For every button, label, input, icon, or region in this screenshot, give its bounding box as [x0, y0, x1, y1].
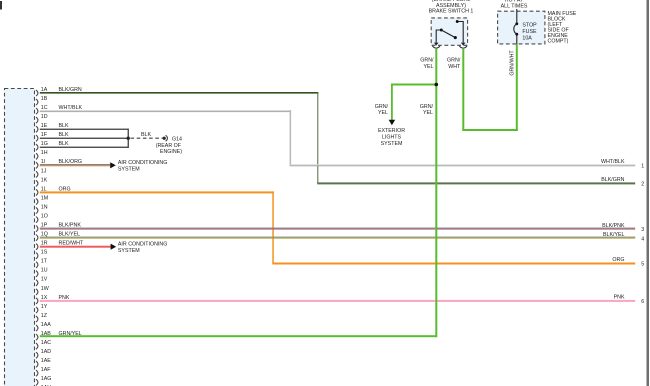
label BLK/PNK at right exit — [602, 223, 625, 229]
label BLK/GRN at pin 1A — [59, 87, 82, 93]
svg-text:AIR CONDITIONING: AIR CONDITIONING — [118, 242, 167, 248]
page frame right border — [647, 0, 650, 386]
svg-text:1M: 1M — [41, 195, 48, 201]
svg-text:1AD: 1AD — [41, 349, 51, 355]
svg-text:1F: 1F — [41, 132, 48, 138]
svg-text:BLK: BLK — [59, 132, 69, 138]
svg-text:1J: 1J — [41, 168, 47, 174]
label BLK/PNK at pin 1P — [59, 223, 82, 229]
svg-text:1S: 1S — [41, 250, 48, 256]
label BLK at pin 1E — [59, 123, 69, 129]
label HOT AT ALL TIMES — [501, 0, 528, 10]
brake switch 1 contacts and blade — [436, 20, 463, 42]
svg-text:STOP: STOP — [522, 23, 537, 29]
label EXTERIOR LIGHTS SYSTEM — [378, 128, 405, 147]
svg-text:1N: 1N — [41, 204, 48, 210]
junction dot GRN/YEL node — [435, 83, 439, 87]
label GRN/WHT (vertical) — [510, 50, 516, 76]
svg-text:1O: 1O — [41, 214, 48, 220]
svg-text:G14: G14 — [172, 137, 182, 143]
stop fuse box (main fuse block) — [498, 11, 545, 44]
label BRAKE SWITCH 1 — [429, 9, 474, 15]
exit number 1 — [641, 163, 644, 169]
pin 1V — [36, 277, 48, 286]
pin 1X — [36, 295, 48, 304]
svg-text:1AE: 1AE — [41, 358, 51, 364]
pin 1L — [36, 186, 47, 195]
svg-text:1AF: 1AF — [41, 367, 51, 373]
pin 1W — [36, 286, 49, 295]
svg-text:SYSTEM: SYSTEM — [118, 167, 140, 173]
svg-text:GRN/: GRN/ — [420, 58, 434, 64]
pin 1G — [36, 141, 48, 150]
wire GRN/WHT from brake switch to stop fuse — [462, 44, 518, 131]
arrow to air conditioning system (1I) — [110, 162, 116, 168]
label BLK/YEL at pin 1Q — [59, 232, 81, 238]
exit number 5 — [641, 262, 644, 268]
pin 1S — [36, 250, 48, 259]
BLK bracket junction — [127, 129, 130, 148]
exit number 3 — [641, 227, 644, 233]
label BLK on ground lead — [141, 132, 151, 138]
svg-text:1Z: 1Z — [41, 313, 48, 319]
feed wire into stop fuse — [516, 9, 518, 24]
svg-text:1AC: 1AC — [41, 340, 51, 346]
svg-text:WHT: WHT — [448, 64, 461, 70]
ground G14 terminal symbol — [163, 135, 168, 141]
svg-text:BLK/ORG: BLK/ORG — [59, 159, 83, 165]
svg-text:BLK/PNK: BLK/PNK — [59, 223, 82, 229]
pin 1D — [36, 114, 48, 123]
svg-text:BLK/YEL: BLK/YEL — [59, 232, 81, 238]
svg-text:EXTERIOR: EXTERIOR — [378, 128, 405, 134]
label (BRAKE PEDAL ASSEMBLY) — [432, 0, 471, 9]
brake switch pin 1 connector symbol (left) — [432, 43, 440, 49]
pin 1AA — [36, 322, 51, 331]
arrow to exterior lights system — [389, 120, 396, 125]
label GRN/YEL below brake switch left pin — [420, 58, 434, 70]
label BLK/GRN at right exit — [601, 177, 624, 183]
pin 1O — [36, 214, 48, 223]
svg-text:1: 1 — [641, 163, 644, 169]
svg-text:6: 6 — [641, 299, 644, 305]
wire BLK/PNK from pin 1P to right edge (exit 3) — [40, 228, 635, 230]
brake switch pin 2 connector symbol (right) — [459, 43, 467, 49]
pin 1J — [36, 168, 47, 177]
svg-text:ENGINE): ENGINE) — [160, 149, 182, 155]
svg-text:WHT/BLK: WHT/BLK — [601, 159, 625, 165]
svg-text:GRN/: GRN/ — [447, 58, 461, 64]
wire ORG from pin 1L to right edge (exit 5) — [40, 191, 635, 264]
svg-text:1Y: 1Y — [41, 304, 48, 310]
svg-text:BLK/PNK: BLK/PNK — [602, 223, 625, 229]
wire BLK/ORG from pin 1I to A/C system — [40, 164, 110, 166]
svg-text:1AG: 1AG — [41, 376, 52, 382]
svg-text:PNK: PNK — [59, 295, 70, 301]
svg-text:ORG: ORG — [59, 186, 71, 192]
label GRN/YEL at main run — [420, 104, 434, 116]
label STOP FUSE 10A — [522, 23, 537, 42]
label WHT/BLK at pin 1C — [59, 105, 83, 111]
exit number 6 — [641, 299, 644, 305]
wire BLK/YEL from pin 1Q to right edge (exit 4) — [40, 237, 635, 239]
label WHT/BLK at right exit — [601, 159, 625, 165]
svg-text:COMPT): COMPT) — [548, 38, 569, 44]
label ORG at pin 1L — [59, 186, 71, 192]
wire BLK/GRN from pin 1A to right edge (exit 2) — [40, 92, 635, 185]
pin 1R — [36, 241, 48, 250]
pin 1C — [36, 105, 48, 114]
wire BLK pin 1E — [40, 129, 129, 130]
svg-text:GRN/: GRN/ — [375, 104, 389, 110]
pin 1AE — [36, 358, 51, 367]
pin 1AH — [36, 385, 51, 386]
svg-text:ALL TIMES: ALL TIMES — [501, 4, 528, 10]
label G14 — [172, 137, 182, 143]
svg-text:GRN/YEL: GRN/YEL — [59, 331, 82, 337]
pin 1Z — [36, 313, 48, 322]
svg-text:BLK: BLK — [141, 132, 151, 138]
pin 1F — [36, 132, 48, 141]
wire BLK pin 1F — [40, 138, 129, 139]
svg-text:1AA: 1AA — [41, 322, 51, 328]
pin 1AB — [36, 331, 51, 340]
label BLK/YEL at right exit — [603, 232, 625, 238]
pin 1AG — [36, 376, 51, 385]
pin 1AF — [36, 367, 51, 376]
page frame top-left corner mark — [0, 1, 2, 10]
svg-text:BLK: BLK — [59, 123, 69, 129]
svg-text:3: 3 — [641, 227, 644, 233]
label GRN/YEL at branch — [375, 104, 389, 116]
wire GRN/YEL from pin 1AB up to brake switch — [40, 49, 438, 337]
label AIR CONDITIONING SYSTEM (1I) — [118, 160, 167, 173]
brake switch 1 box — [431, 18, 467, 45]
svg-text:2: 2 — [641, 182, 644, 188]
label AIR CONDITIONING SYSTEM (1R) — [118, 242, 167, 255]
svg-text:BLK: BLK — [59, 141, 69, 147]
svg-text:4: 4 — [641, 236, 644, 242]
svg-text:BLK/GRN: BLK/GRN — [601, 177, 624, 183]
dashed ground lead to G14 — [131, 137, 163, 139]
label ORG at right exit — [612, 257, 624, 263]
svg-text:BRAKE SWITCH 1: BRAKE SWITCH 1 — [429, 9, 474, 15]
svg-text:BLK/YEL: BLK/YEL — [603, 232, 625, 238]
pin 1AC — [36, 340, 51, 349]
svg-text:GRN/WHT: GRN/WHT — [510, 50, 516, 76]
label PNK at pin 1X — [59, 295, 70, 301]
label BLK at pin 1G — [59, 141, 69, 147]
svg-text:YEL: YEL — [423, 110, 433, 116]
svg-text:5: 5 — [641, 262, 644, 268]
pin 1I — [36, 159, 45, 168]
pin 1AD — [36, 349, 51, 358]
label MAIN FUSE BLOCK (LEFT SIDE OF ENGINE COMPT) — [548, 11, 577, 44]
svg-text:1T: 1T — [41, 259, 48, 265]
pin 1Q — [36, 232, 48, 241]
pin 1T — [36, 259, 48, 268]
pin 1B — [36, 96, 48, 105]
pin 1K — [36, 177, 48, 186]
arrow to air conditioning system (1R) — [111, 244, 117, 250]
svg-text:SYSTEM: SYSTEM — [118, 248, 140, 254]
pin 1Y — [36, 304, 48, 313]
wire BLK pin 1G — [40, 147, 129, 148]
connector C1 (instrument panel harness) box — [5, 89, 35, 386]
svg-text:BLK/GRN: BLK/GRN — [59, 87, 82, 93]
svg-text:ORG: ORG — [612, 257, 624, 263]
svg-text:1V: 1V — [41, 277, 48, 283]
wire PNK from pin 1X to right edge (exit 6) — [40, 300, 635, 302]
wire WHT/BLK from pin 1C to right edge (exit 1) — [40, 110, 635, 166]
svg-text:GRN/: GRN/ — [420, 104, 434, 110]
svg-text:FUSE: FUSE — [522, 29, 537, 35]
label PNK at right exit — [614, 295, 625, 301]
label RED/WHT at pin 1R — [59, 241, 84, 247]
label BLK at pin 1F — [59, 132, 69, 138]
label BLK/ORG at pin 1I — [59, 159, 83, 165]
svg-text:RED/WHT: RED/WHT — [59, 241, 84, 247]
svg-text:LIGHTS: LIGHTS — [382, 135, 402, 141]
svg-text:1K: 1K — [41, 177, 48, 183]
wire GRN/YEL branch to exterior lights system — [391, 84, 436, 121]
svg-text:1G: 1G — [41, 141, 48, 147]
svg-text:1H: 1H — [41, 150, 48, 156]
pin 1U — [36, 268, 48, 277]
svg-text:AIR CONDITIONING: AIR CONDITIONING — [118, 160, 167, 166]
pin 1N — [36, 204, 48, 213]
pin 1A — [36, 87, 48, 96]
svg-text:YEL: YEL — [378, 110, 388, 116]
label GRN/YEL at pin 1AB — [59, 331, 82, 337]
svg-text:1D: 1D — [41, 114, 48, 120]
svg-text:PNK: PNK — [614, 295, 625, 301]
pin 1P — [36, 223, 48, 232]
exit number 4 — [641, 236, 644, 242]
svg-text:1B: 1B — [41, 96, 48, 102]
svg-text:1U: 1U — [41, 268, 48, 274]
wire RED/WHT from pin 1R to A/C system — [40, 246, 111, 248]
svg-text:1E: 1E — [41, 123, 48, 129]
exit number 2 — [641, 182, 644, 188]
svg-text:10A: 10A — [522, 35, 532, 41]
svg-text:(REAR OF: (REAR OF — [156, 143, 182, 149]
label GRN/WHT below brake switch right pin — [447, 58, 461, 70]
svg-text:SYSTEM: SYSTEM — [381, 141, 403, 147]
fuse STOP FUSE 10A symbol — [514, 22, 518, 44]
label (REAR OF ENGINE) — [156, 143, 183, 155]
svg-text:1W: 1W — [41, 286, 49, 292]
svg-text:WHT/BLK: WHT/BLK — [59, 105, 83, 111]
pin 1H — [36, 150, 48, 159]
svg-text:YEL: YEL — [423, 64, 433, 70]
pin 1M — [36, 195, 48, 204]
pin 1E — [36, 123, 48, 132]
